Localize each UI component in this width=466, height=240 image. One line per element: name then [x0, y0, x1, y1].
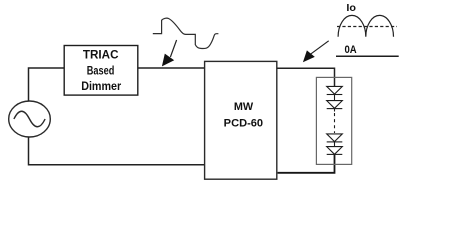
svg-text:Dimmer: Dimmer — [81, 79, 121, 93]
TRIAC dimmer box U1 — [64, 46, 138, 96]
dimmer chopped AC waveform — [153, 18, 219, 48]
arrow: output current pointer — [311, 41, 329, 54]
svg-text:0A: 0A — [345, 44, 357, 56]
AC source V1 — [9, 101, 51, 137]
wire: AC bottom to MW PCD-60 input — [29, 137, 205, 165]
LED load box — [316, 77, 351, 164]
LED D2 — [327, 101, 343, 109]
dashed average current line — [337, 26, 397, 28]
arrow: dimmer waveform pointer — [170, 40, 176, 57]
svg-text:MW: MW — [234, 101, 254, 113]
MW PCD-60 driver box U2 — [205, 61, 277, 179]
wire: AC top to TRIAC dimmer input — [29, 68, 65, 102]
wire: TRIAC dimmer output to MW PCD-60 input — [138, 67, 205, 69]
0A axis line — [336, 55, 399, 57]
wire: D1 to D2 — [334, 95, 336, 101]
LED D3 — [327, 134, 343, 142]
svg-text:Based: Based — [87, 63, 115, 77]
output current waveform Io humps — [338, 15, 393, 36]
wire: LED string cathode to MW PCD-60 output- — [278, 154, 335, 172]
LED D1 — [327, 86, 343, 94]
wire: MW PCD-60 output+ to LED string anode — [277, 68, 335, 86]
wire: D3 to D4 — [334, 142, 336, 147]
LED D4 — [327, 147, 343, 155]
svg-text:PCD-60: PCD-60 — [224, 117, 263, 129]
svg-text:Io: Io — [346, 2, 356, 14]
svg-text:TRIAC: TRIAC — [83, 48, 119, 62]
dashed wire: LED string continuation — [334, 109, 336, 112]
